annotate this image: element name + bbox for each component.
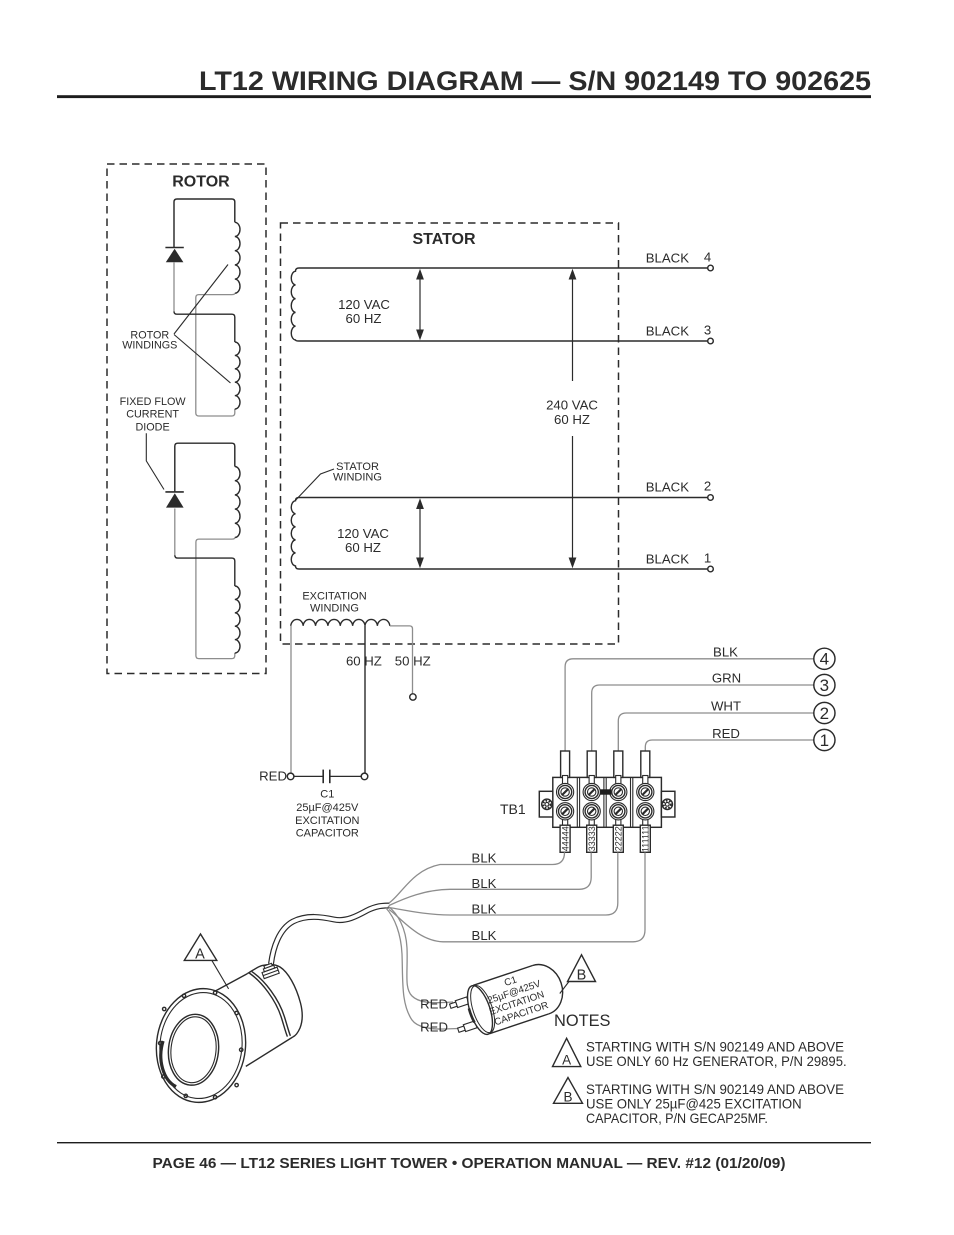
TB1 ring terminal and screw bottom 2 [583, 803, 600, 828]
connector circle 4 [814, 648, 835, 669]
harness cable from floodlight [271, 906, 390, 965]
floodlight body groove arcs [249, 973, 287, 1037]
svg-text:USE ONLY 60 Hz GENERATOR, P/N: USE ONLY 60 Hz GENERATOR, P/N 29895. [586, 1053, 847, 1069]
TB1 wire sleeve label 3 [587, 825, 597, 852]
svg-text:C1: C1 [320, 789, 334, 801]
floodlight body bottom line [246, 1037, 293, 1066]
terminal BLACK 4 [646, 250, 714, 271]
label fixed flow current diode [120, 396, 187, 434]
wire rotor winding L3 loop top [175, 443, 235, 492]
wire BLK run to connector 4 [565, 659, 814, 751]
TB1 ring terminal and screw bottom 3 [610, 803, 627, 828]
TB1 wire sleeve label 4 [560, 825, 570, 852]
floodlight flange [151, 984, 251, 1107]
svg-text:STATOR: STATOR [412, 231, 476, 248]
svg-text:BLACK: BLACK [646, 324, 689, 339]
svg-text:4: 4 [704, 250, 711, 265]
svg-text:BLACK: BLACK [646, 552, 689, 567]
svg-text:1: 1 [704, 551, 711, 566]
callout triangle B [560, 955, 596, 994]
svg-text:120 VAC: 120 VAC [338, 297, 390, 312]
wire BLK harness 2 [389, 853, 591, 906]
svg-text:GRN: GRN [712, 671, 741, 686]
svg-text:RED: RED [712, 726, 740, 741]
wire rotor L3-L4 junction [196, 538, 235, 659]
wire BLK harness 4 [389, 853, 645, 942]
TB1 jumper bar terminals 2-3 [600, 789, 611, 794]
svg-text:240 VAC: 240 VAC [546, 398, 598, 413]
terminal RED left [287, 773, 294, 780]
stator winding S1 with output wires [291, 268, 707, 341]
svg-text:4: 4 [820, 650, 829, 669]
wire excitation left to RED [290, 626, 292, 774]
callout triangle A [184, 934, 228, 989]
wire rotor winding L2 top [174, 311, 235, 342]
rotor winding L4 coil [235, 586, 240, 653]
stator box [281, 223, 619, 644]
note A text [586, 1038, 847, 1069]
svg-text:1: 1 [820, 731, 829, 750]
svg-text:BLK: BLK [472, 851, 497, 866]
svg-text:CURRENT: CURRENT [126, 409, 179, 421]
svg-text:60 HZ: 60 HZ [346, 311, 382, 326]
label excitation winding [302, 590, 366, 614]
svg-text:BLK: BLK [472, 928, 497, 943]
svg-text:CAPACITOR: CAPACITOR [296, 828, 359, 840]
svg-text:FIXED FLOW: FIXED FLOW [120, 396, 187, 408]
leader to rotor winding L2 [174, 335, 231, 384]
svg-text:WINDING: WINDING [333, 472, 382, 484]
label stator winding [333, 461, 382, 484]
svg-text:44444: 44444 [560, 826, 570, 851]
voltage arrow 120VAC S2 [416, 498, 424, 568]
connector circle 1 [814, 729, 835, 750]
wire RED harness 1 [388, 906, 453, 1003]
label 240 VAC 60 HZ [546, 398, 598, 428]
capacitor printed label [481, 968, 550, 1029]
TB1 left mounting tab [539, 791, 553, 817]
rotor winding L3 coil [235, 467, 240, 538]
svg-text:NOTES: NOTES [554, 1012, 611, 1030]
capacitor body outline [462, 959, 569, 1038]
TB1 right mounting tab [661, 791, 675, 817]
terminal 50HZ [410, 694, 416, 700]
floodlight body top line [205, 974, 247, 997]
note A triangle [553, 1038, 581, 1067]
svg-text:LT12 WIRING DIAGRAM — S/N 9021: LT12 WIRING DIAGRAM — S/N 902149 TO 9026… [199, 66, 871, 96]
terminal block TB1 body [553, 777, 662, 827]
wire rotor L1-L2 junction [196, 293, 235, 416]
rotor winding L2 coil [235, 342, 240, 409]
diode D1 [165, 248, 183, 263]
TB1 spade terminal top 1 [561, 751, 570, 777]
svg-text:3: 3 [704, 323, 711, 338]
TB1 ring terminal and screw top 2 [583, 776, 600, 801]
svg-text:WINDING: WINDING [310, 603, 359, 615]
note B text [586, 1081, 844, 1126]
wire 60HZ tap [364, 626, 366, 774]
leader to diode D2 [146, 433, 164, 489]
svg-text:EXCITATION: EXCITATION [295, 815, 359, 827]
TB1 spade terminal top 2 [587, 751, 596, 777]
capacitor pin 2 [457, 1021, 477, 1034]
svg-text:BLACK: BLACK [646, 480, 689, 495]
TB1 spade terminal top 4 [641, 751, 650, 777]
connector circle 3 [814, 674, 835, 695]
floodlight flange bolts [159, 991, 243, 1099]
label 120 VAC 60 HZ S1 [338, 297, 390, 326]
svg-text:BLK: BLK [713, 645, 738, 660]
connector circle 2 [814, 702, 835, 723]
TB1 spade terminal top 3 [614, 751, 623, 777]
wire 50HZ tap [390, 626, 413, 694]
svg-text:B: B [563, 1090, 572, 1105]
floodlight lens ring [165, 1012, 222, 1088]
svg-text:60 HZ: 60 HZ [345, 540, 381, 555]
floodlight cable connector nut [260, 962, 279, 979]
TB1 ring terminal and screw top 3 [610, 776, 627, 801]
voltage arrow 240VAC [569, 269, 577, 568]
wire RED harness 2 [386, 908, 458, 1029]
svg-text:60 HZ: 60 HZ [346, 654, 382, 669]
wire rotor winding L4 top [175, 555, 235, 586]
rotor winding L1 coil [235, 222, 240, 293]
svg-text:A: A [195, 947, 205, 963]
TB1 ring terminal and screw bottom 1 [557, 803, 574, 828]
terminal 60HZ right [361, 773, 368, 780]
svg-text:33333: 33333 [587, 826, 597, 851]
capacitor C1 symbol [294, 770, 362, 784]
stator winding S2 with output wires [291, 498, 707, 570]
svg-text:A: A [562, 1053, 571, 1068]
svg-text:2: 2 [820, 704, 829, 723]
svg-text:50 HZ: 50 HZ [395, 654, 431, 669]
svg-text:22222: 22222 [614, 826, 624, 851]
svg-text:BLK: BLK [472, 902, 497, 917]
TB1 ring terminal and screw bottom 4 [637, 803, 654, 828]
TB1 ring terminal and screw top 1 [557, 776, 574, 801]
svg-text:RED: RED [259, 769, 287, 784]
footer rule [57, 1142, 871, 1143]
TB1 wire sleeve label 1 [640, 825, 650, 852]
capacitor pin 1 [449, 997, 469, 1010]
excitation winding coil [291, 619, 390, 625]
svg-text:25µF@425V: 25µF@425V [296, 802, 359, 814]
floodlight generator assembly [205, 965, 302, 1067]
leader to stator winding S2 [295, 469, 334, 501]
rotor box [107, 164, 266, 674]
floodlight rear cap [247, 965, 302, 1037]
terminal BLACK 2 [646, 479, 714, 501]
wire GRN run to connector 3 [592, 685, 814, 751]
wire rotor winding L1 loop top [174, 199, 235, 248]
voltage arrow 120VAC S1 [416, 269, 424, 340]
wire BLK harness 3 [389, 853, 618, 916]
svg-text:BLK: BLK [472, 876, 497, 891]
title rule [57, 95, 871, 98]
svg-text:60 HZ: 60 HZ [554, 412, 590, 427]
label 120 VAC 60 HZ S2 [337, 526, 389, 555]
terminal BLACK 3 [646, 323, 714, 344]
TB1 section separators [577, 777, 633, 827]
svg-text:3: 3 [820, 676, 829, 695]
diode D2 (fixed flow current diode) [165, 492, 183, 508]
svg-text:RED: RED [420, 997, 448, 1012]
svg-text:STARTING WITH S/N 902149 AND A: STARTING WITH S/N 902149 AND ABOVE [586, 1038, 844, 1054]
svg-text:111111: 111111 [641, 825, 651, 852]
svg-text:120 VAC: 120 VAC [337, 526, 389, 541]
capacitor C1 cylinder [446, 959, 569, 1043]
svg-text:B: B [577, 968, 587, 984]
svg-text:CAPACITOR, P/N GECAP25MF.: CAPACITOR, P/N GECAP25MF. [586, 1110, 768, 1126]
leader to rotor winding L1 [174, 265, 228, 335]
svg-text:DIODE: DIODE [135, 422, 169, 434]
wire WHT run to connector 2 [618, 713, 814, 751]
svg-text:RED: RED [420, 1020, 448, 1035]
svg-text:WINDINGS: WINDINGS [122, 340, 177, 352]
label rotor windings [122, 330, 177, 352]
wire diode D2 to L4 [174, 509, 176, 556]
terminal BLACK 1 [646, 551, 714, 572]
TB1 wire sleeve label 2 [613, 825, 623, 852]
svg-text:EXCITATION: EXCITATION [302, 590, 366, 602]
wire diode D1 to L2 [173, 263, 175, 312]
wire BLK harness 1 [389, 852, 565, 903]
label C1 excitation capacitor [295, 789, 359, 840]
wire RED run to connector 1 [645, 740, 814, 751]
svg-text:ROTOR: ROTOR [172, 174, 230, 191]
TB1 ring terminal and screw top 4 [637, 776, 654, 801]
svg-text:WHT: WHT [711, 699, 741, 714]
svg-text:PAGE 46 — LT12 SERIES LIGHT TO: PAGE 46 — LT12 SERIES LIGHT TOWER • OPER… [153, 1155, 786, 1172]
svg-text:TB1: TB1 [500, 801, 526, 817]
svg-text:BLACK: BLACK [646, 251, 689, 266]
svg-text:2: 2 [704, 479, 711, 494]
note B triangle [554, 1078, 583, 1105]
